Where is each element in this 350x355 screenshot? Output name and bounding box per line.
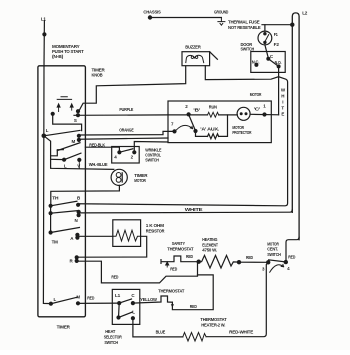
contact dot left of start switch — [51, 112, 55, 116]
wire CHASSIS to ground — [150, 17, 221, 19]
svg-text:ORANGE: ORANGE — [119, 128, 133, 133]
heat selector switch box — [112, 289, 140, 324]
contact bottom L dot — [62, 158, 66, 162]
cycling thermostat arrow — [171, 304, 174, 307]
switch blade L to M upper — [44, 130, 80, 135]
svg-text:L2: L2 — [302, 11, 307, 17]
svg-text:THERMOSTAT: THERMOSTAT — [200, 317, 226, 322]
svg-text:WHITE: WHITE — [185, 207, 203, 212]
svg-text:RESISTOR: RESISTOR — [146, 228, 165, 233]
contact door NO dot — [277, 64, 281, 68]
resistor zigzag — [113, 230, 141, 241]
svg-text:N.O.: N.O. — [275, 60, 282, 65]
svg-text:'A' AUX.: 'A' AUX. — [200, 127, 219, 132]
svg-text:THERMOSTAT: THERMOSTAT — [167, 246, 193, 251]
motor box — [168, 101, 271, 143]
contact heat sel L dot — [131, 316, 135, 320]
svg-text:RUN: RUN — [209, 105, 217, 110]
svg-text:TIMER: TIMER — [134, 173, 148, 178]
svg-text:RED: RED — [170, 267, 178, 272]
svg-text:CHASSIS: CHASSIS — [143, 9, 160, 14]
wire to bottom L contact — [51, 158, 65, 160]
contact N dots — [77, 210, 81, 214]
junction L1 dot — [42, 32, 46, 36]
wire V contact stub — [78, 160, 80, 168]
svg-text:KNOB: KNOB — [92, 73, 104, 78]
wire motor run winding — [168, 114, 237, 116]
svg-text:SELECTOR: SELECTOR — [104, 335, 123, 340]
svg-text:HEATER-2 W.: HEATER-2 W. — [201, 322, 225, 327]
run winding squiggle — [208, 112, 219, 117]
door switch box — [251, 52, 285, 73]
svg-text:THERMAL FUSE: THERMAL FUSE — [228, 20, 260, 25]
push-to-start left arrow — [57, 104, 60, 112]
svg-text:RED: RED — [186, 254, 194, 259]
svg-text:(N-B): (N-B) — [52, 54, 64, 59]
resistor box 1K OHM — [113, 220, 141, 247]
svg-text:RED: RED — [246, 255, 254, 260]
ground symbol — [218, 18, 225, 26]
wire thermal fuse feed from L2 — [262, 24, 292, 26]
svg-text:BLUE: BLUE — [156, 330, 166, 335]
contact motor B dot — [187, 112, 191, 116]
svg-text:L1: L1 — [115, 293, 121, 298]
push-to-start right arrow — [70, 104, 73, 110]
junction chassis dot — [148, 15, 152, 19]
switch blade heat sel lower — [119, 312, 133, 317]
wire red-blk to wrinkle switch — [85, 147, 119, 152]
switch blade TH to B — [51, 201, 77, 206]
switch blade motor B to aux — [189, 114, 196, 130]
cent switch arc — [270, 264, 284, 272]
wrinkle control switch box — [112, 147, 140, 164]
svg-text:MOTOR: MOTOR — [134, 178, 146, 183]
contact S dots — [76, 109, 80, 113]
wire timer motor return to TH rail — [51, 185, 120, 205]
svg-text:RED-BLK: RED-BLK — [89, 142, 105, 147]
wire protector to contact 1 — [250, 113, 279, 116]
svg-text:TIMER: TIMER — [57, 324, 71, 329]
wire R lower red drop — [77, 261, 198, 283]
svg-text:RED: RED — [190, 304, 198, 309]
wire blue heat sel L to heater resistor — [133, 318, 183, 337]
svg-text:MOTOR: MOTOR — [250, 92, 262, 97]
svg-text:SWITCH: SWITCH — [267, 252, 281, 257]
push-to-start actuator bars — [57, 97, 71, 100]
wire L2 to motor cent 4 — [286, 237, 299, 262]
svg-text:'B': 'B' — [193, 107, 200, 112]
svg-text:SWITCH: SWITCH — [145, 158, 159, 163]
svg-text:H: H — [281, 94, 284, 99]
contact TH rail dots — [49, 204, 53, 208]
svg-text:TM: TM — [52, 240, 58, 245]
svg-text:YELLOW: YELLOW — [140, 297, 157, 302]
svg-text:WH.-BLUE: WH.-BLUE — [89, 162, 108, 167]
svg-text:4750 W.: 4750 W. — [202, 248, 217, 253]
timer motor coil symbol — [116, 173, 121, 178]
wire wrinkle 2 riser — [134, 142, 168, 153]
wire start-switch left contact to blade stop — [53, 114, 82, 131]
safety thermostat wire and bump — [161, 256, 197, 263]
wire TH rail — [50, 206, 52, 233]
svg-text:NOT RESETABLE: NOT RESETABLE — [228, 25, 261, 30]
contact bottom timer L dot — [49, 302, 53, 306]
contact R dots — [75, 255, 79, 259]
contact bottom timer M dot — [76, 301, 80, 305]
svg-text:'C': 'C' — [254, 107, 261, 112]
thermostat heater zigzag — [183, 333, 206, 342]
wire L cam link down — [44, 136, 51, 168]
wire yellow C to thermostat — [133, 296, 173, 303]
contact V dot — [77, 158, 81, 162]
wire heat sel left rail — [118, 303, 121, 317]
contact M dots — [77, 134, 81, 138]
contact B dot — [76, 203, 80, 207]
contact cent 3 dot — [266, 260, 270, 264]
switch blade L to V open — [64, 153, 81, 160]
svg-text:N.C.: N.C. — [252, 59, 259, 64]
motor centrifugal arc — [177, 125, 193, 129]
svg-text:L1: L1 — [41, 17, 46, 23]
svg-text:GROUND: GROUND — [214, 9, 229, 14]
wire buzzer to door switch NO — [205, 66, 278, 80]
wire branch to thermostat loop — [172, 275, 213, 310]
timer motor circle — [111, 169, 127, 185]
junction heater left dot — [197, 260, 201, 264]
junction heater right dot — [237, 260, 241, 264]
svg-text:RED: RED — [111, 275, 119, 280]
thermal fuse F1-F2 circle — [258, 31, 272, 45]
svg-text:RED: RED — [87, 296, 95, 301]
switch blade lower cam — [57, 143, 80, 151]
contact heat sel C dot — [131, 301, 135, 305]
contact motor 7 dot — [172, 129, 176, 133]
svg-text:I: I — [282, 100, 283, 105]
svg-text:N: N — [75, 218, 78, 223]
contact door C dot — [266, 57, 270, 61]
buzzer coil symbol — [186, 55, 204, 62]
thermostat arrow stub — [166, 262, 169, 267]
contact wrinkle 2 dot — [132, 150, 136, 154]
switch blade wrinkle — [119, 149, 132, 153]
contact motor 1 dot — [262, 112, 266, 116]
svg-text:THERMOSTAT: THERMOSTAT — [158, 289, 184, 294]
contact door NC dot — [254, 63, 258, 67]
wire red timer M to heat selector — [78, 302, 119, 304]
motor protector circle — [237, 107, 250, 120]
contact heat sel lower-left dot — [116, 315, 120, 319]
svg-text:PROTECTOR: PROTECTOR — [232, 130, 252, 135]
svg-text:HEAT: HEAT — [105, 329, 115, 334]
svg-text:BUZZER: BUZZER — [185, 44, 201, 49]
switch blade TM to A — [51, 228, 80, 233]
node L1 terminal wire — [43, 21, 45, 66]
svg-text:E: E — [281, 112, 284, 117]
buzzer armature — [210, 52, 218, 60]
switch blade to N — [51, 211, 78, 214]
buzzer box — [182, 52, 210, 66]
contact motor aux dot — [193, 129, 197, 133]
heating element zigzag — [199, 255, 239, 268]
wire L1 rail inside timer — [43, 66, 51, 304]
wire timer A to resistor — [77, 235, 112, 237]
switch blade L to M timer bottom — [51, 297, 77, 304]
contact heat sel L1 dot — [117, 301, 121, 305]
wire red heater to cent 3 — [239, 261, 268, 263]
switch blade door C to NO — [268, 59, 278, 67]
contact wrinkle 4 dot — [117, 150, 121, 154]
svg-text:M: M — [72, 139, 76, 144]
wire door NO branch to timer B — [78, 77, 288, 206]
svg-text:M: M — [76, 295, 80, 300]
svg-text:V: V — [77, 164, 80, 169]
node L pivot dot — [42, 134, 47, 139]
wire S contact riser to buzzer feed — [79, 66, 186, 112]
wire red-white to cent 3 — [206, 262, 268, 336]
svg-text:RED: RED — [288, 254, 296, 259]
wire cam step bracket — [51, 150, 64, 156]
wire orange M to motor 7 — [79, 131, 175, 135]
contact A dots — [75, 233, 79, 237]
wire white L2 to timer N — [79, 210, 293, 213]
svg-text:TH: TH — [52, 195, 58, 200]
wire WH-BLUE to timer motor — [51, 168, 114, 170]
svg-text:RED-WHITE: RED-WHITE — [229, 330, 253, 335]
svg-text:S: S — [74, 118, 77, 123]
svg-text:TIMER: TIMER — [92, 67, 106, 72]
svg-text:SWITCH: SWITCH — [104, 340, 118, 345]
wire purple S to motor — [74, 114, 168, 116]
switch blade cent 3-4 — [269, 260, 286, 262]
timer box outline — [38, 66, 86, 317]
node L2 hairpin — [292, 13, 299, 240]
wire riser to thermal fuse — [264, 25, 266, 32]
svg-text:PURPLE: PURPLE — [119, 107, 133, 112]
wire resistor to R contact — [77, 236, 147, 257]
svg-text:SWITCH: SWITCH — [241, 47, 255, 52]
wire aux winding — [196, 115, 228, 139]
svg-text:F1: F1 — [274, 32, 279, 37]
contact cent 4 dot — [284, 260, 288, 264]
svg-text:F2: F2 — [274, 42, 280, 47]
wire door NO white drop — [278, 66, 280, 114]
switch blade heat sel upper — [119, 299, 131, 303]
junction L2 dot — [290, 23, 294, 27]
wire thermal fuse to door C — [265, 45, 268, 57]
wire M lower stub — [79, 138, 168, 139]
